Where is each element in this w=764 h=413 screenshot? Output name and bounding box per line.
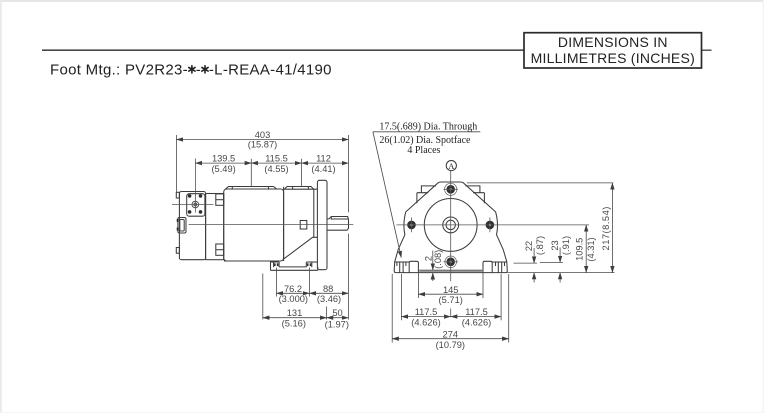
svg-text:(.87): (.87) xyxy=(535,236,545,255)
svg-text:(4.41): (4.41) xyxy=(311,164,335,174)
svg-text:Foot Mtg.: PV2R23-: Foot Mtg.: PV2R23- xyxy=(50,62,188,79)
svg-text:(.91): (.91) xyxy=(561,236,571,255)
svg-text:MILLIMETRES (INCHES): MILLIMETRES (INCHES) xyxy=(531,50,695,66)
svg-text:217(8.54): 217(8.54) xyxy=(601,206,611,250)
svg-text:(3.000): (3.000) xyxy=(279,294,308,304)
svg-text:(4.31): (4.31) xyxy=(586,237,596,261)
svg-text:23: 23 xyxy=(550,240,560,250)
svg-text:17.5(.689) Dia. Through: 17.5(.689) Dia. Through xyxy=(379,122,477,133)
svg-text:(4.55): (4.55) xyxy=(264,164,288,174)
svg-text:274: 274 xyxy=(443,329,459,339)
svg-text:403: 403 xyxy=(255,130,271,140)
svg-text:DIMENSIONS IN: DIMENSIONS IN xyxy=(558,34,668,50)
svg-text:(3.46): (3.46) xyxy=(317,294,341,304)
svg-text:145: 145 xyxy=(443,285,459,295)
svg-text:131: 131 xyxy=(287,308,303,318)
svg-text:117.5: 117.5 xyxy=(465,307,488,317)
svg-text:(5.16): (5.16) xyxy=(282,319,306,329)
svg-text:22: 22 xyxy=(524,241,534,251)
svg-text:76.2: 76.2 xyxy=(284,284,302,294)
svg-text:109.5: 109.5 xyxy=(575,238,585,261)
svg-text:139.5: 139.5 xyxy=(212,154,235,164)
svg-text:(1.97): (1.97) xyxy=(325,319,349,329)
svg-text:(.08): (.08) xyxy=(433,250,443,269)
svg-text:112: 112 xyxy=(316,154,331,164)
svg-text:(10.79): (10.79) xyxy=(436,340,465,350)
svg-text:-L-REAA-41/4190: -L-REAA-41/4190 xyxy=(209,62,332,79)
svg-text:4 Places: 4 Places xyxy=(407,145,440,156)
svg-text:A: A xyxy=(448,161,455,171)
svg-text:115.5: 115.5 xyxy=(265,154,288,164)
svg-text:50: 50 xyxy=(332,308,342,318)
svg-text:(5.49): (5.49) xyxy=(211,164,235,174)
svg-text:(4.626): (4.626) xyxy=(462,317,491,327)
svg-text:(4.626): (4.626) xyxy=(411,317,440,327)
svg-text:(5.71): (5.71) xyxy=(439,295,463,305)
svg-text:117.5: 117.5 xyxy=(415,307,438,317)
svg-text:-: - xyxy=(196,62,201,79)
svg-text:(15.87): (15.87) xyxy=(248,140,277,150)
svg-text:88: 88 xyxy=(323,284,333,294)
